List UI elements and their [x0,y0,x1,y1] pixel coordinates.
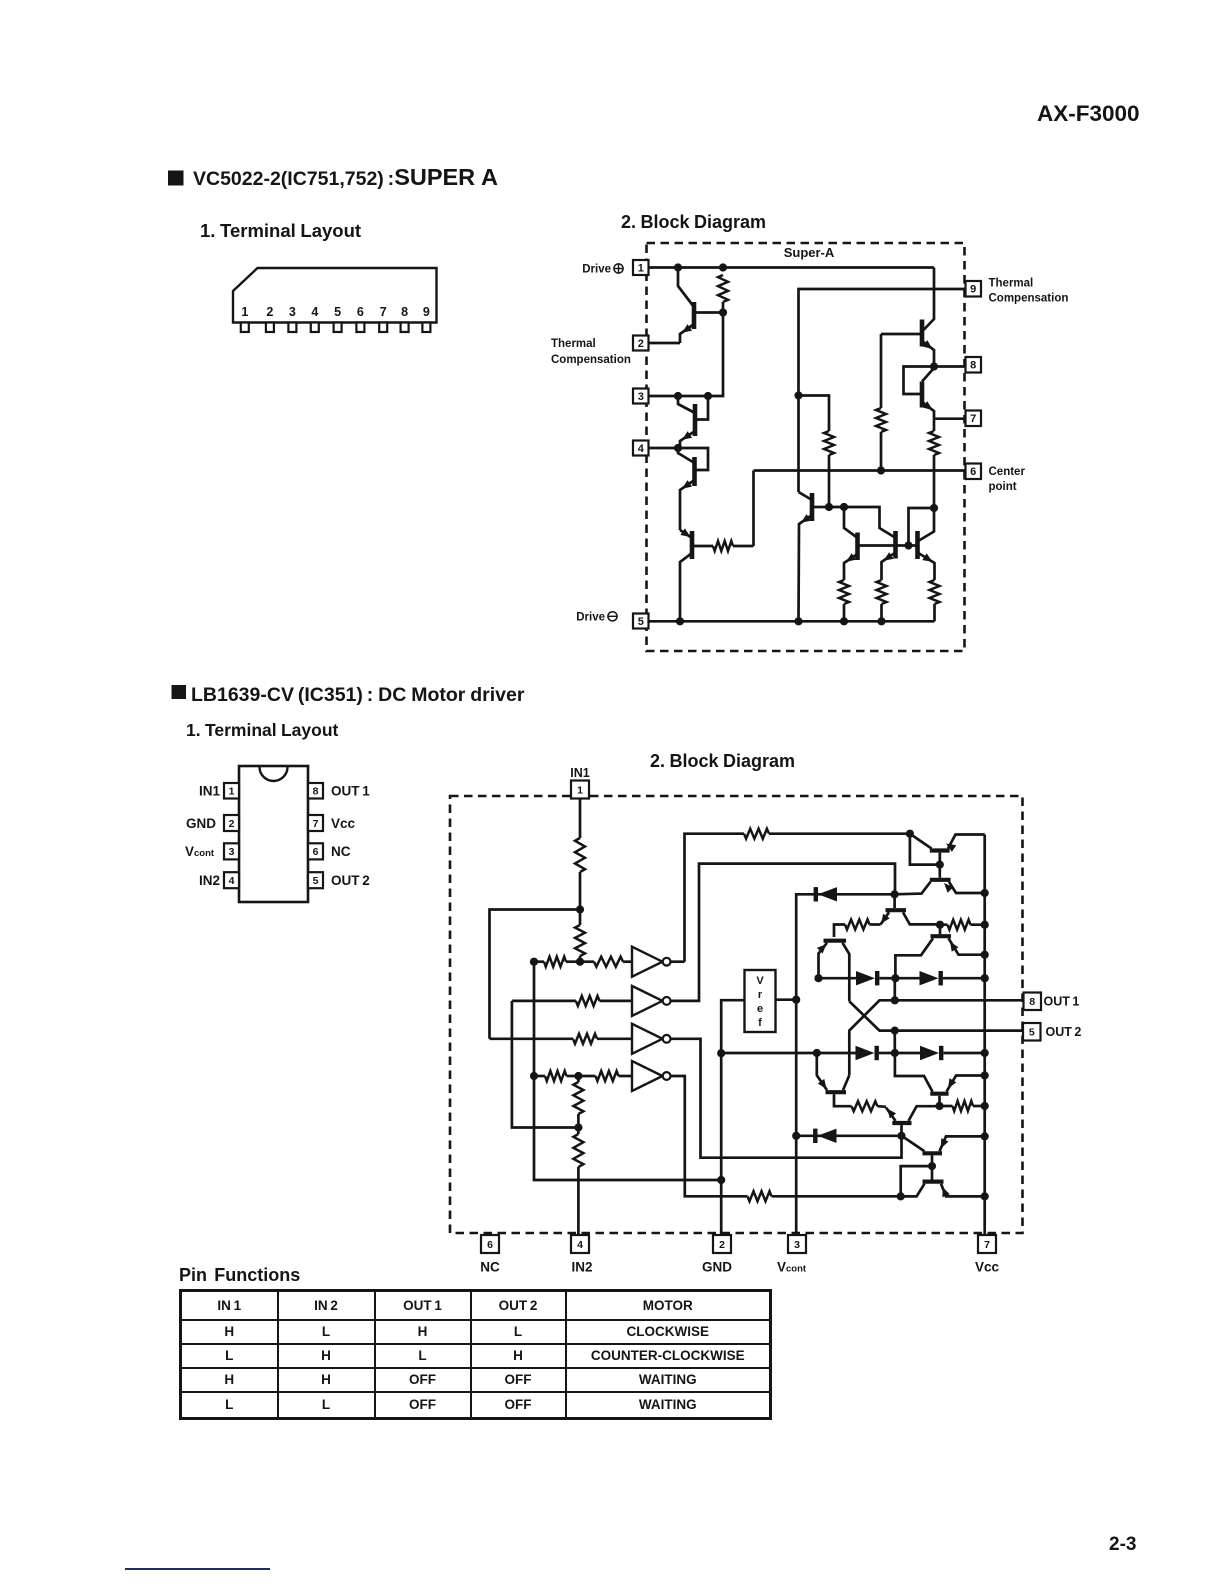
transistor Q14 [817,941,849,1002]
svg-text:1. Terminal Layout: 1. Terminal Layout [200,220,361,241]
node IN1 divider [576,905,584,913]
DIP pin 2 lead [224,815,239,831]
node pin8 [930,362,938,370]
pin 5 (Drive-) [633,614,649,629]
wire U1 output riser [671,834,744,962]
svg-text:V: V [756,975,764,987]
node Vref to Vcont rail [792,996,800,1004]
resistor R3 [824,431,834,507]
SIP pin 6 lead [356,305,364,332]
wire branch to R3 [799,396,830,432]
resistor R18 (row4 left) [534,1071,578,1081]
svg-text:8: 8 [970,360,976,372]
DIP label Vcc [331,816,356,831]
dashed IC boundary box (Super-A) [647,243,965,651]
wire cross-over upper-to-lower [849,1000,895,1075]
wire Q4 base riser to center-point line [752,471,755,547]
pin 6 (Center point) [966,464,982,480]
transistor Q20 (diode-connected bottom) [901,1166,985,1197]
node bottom feed / Q20 [897,1192,905,1200]
transistor Q16 [817,1053,852,1106]
dashed IC boundary box (LB1639) [450,796,1023,1233]
svg-text:8: 8 [1029,996,1035,1008]
svg-text:7: 7 [313,818,319,830]
svg-text:Thermal: Thermal [989,278,1034,290]
section 2 heading text LB1639-CV [191,684,525,706]
label Vcc [975,1260,1000,1275]
subheading 2. Block Diagram (LB1639) [650,751,795,771]
DIP label NC [331,844,351,859]
transistor Q10 (diode-connected, pin8) [904,367,935,419]
svg-text:NC: NC [480,1260,500,1275]
SIP pin 3 lead [288,305,296,332]
label OUT 1 [1044,995,1080,1009]
resistor R20 (bottom feed) [748,1191,901,1201]
node center-line / R4 junction [877,466,885,474]
svg-text:Vcont: Vcont [185,844,215,859]
label Drive minus [576,612,617,624]
section 1 heading bullet [168,171,184,186]
diode D3 [895,971,984,985]
transistor Q9 (upper right) [881,320,934,367]
node Q6 collector tap [840,503,848,511]
resistor R19 (row4 right) [578,1071,632,1081]
node Q18 base / R26 [935,1102,943,1110]
node pin3-A [674,392,682,400]
wire row3 input [490,1037,574,1040]
node pin3-B [704,392,712,400]
svg-text:6: 6 [357,305,364,319]
wire Vcont rail [796,894,816,1234]
svg-text:Vcont: Vcont [777,1260,807,1275]
resistor R22 (IN2 lower) [573,1128,583,1235]
resistor R8 (Q8 emitter) [930,580,940,621]
DIP-8 index notch [260,767,288,781]
wire pin3 [649,395,709,398]
svg-text:4: 4 [229,875,235,887]
svg-text:4: 4 [638,443,645,455]
wire pin7 [934,417,966,420]
SIP pin 1 lead [241,305,249,332]
pin functions table [179,1289,772,1420]
wire OUT2 node to diode row2 [893,1031,896,1053]
resistor R16 (row2) [576,996,632,1006]
svg-text:9: 9 [423,305,430,319]
svg-text:8: 8 [401,305,408,319]
svg-text:r: r [758,989,763,1001]
IC package LB1639 DIP-8 body [239,766,308,902]
svg-text:6: 6 [970,466,976,478]
SIP pin 8 lead [401,305,409,332]
inverter U4 [632,1061,670,1091]
node row4 mid [574,1072,582,1080]
pin 3 Vcont [788,1235,806,1253]
node row1 left [530,958,538,966]
wire pin1 top rail [649,266,935,269]
node pin5-A [676,617,684,625]
resistor R23 (Q14 branch) [834,920,881,938]
node OUT2 [891,1027,899,1035]
DIP pin 7 lead [308,815,323,831]
resistor R4 [876,408,886,471]
wire pin4 [649,447,679,450]
svg-text:IN2: IN2 [199,873,220,888]
svg-text:Compensation: Compensation [989,293,1069,305]
node row4 left [530,1072,538,1080]
svg-text:AX-F3000: AX-F3000 [1037,101,1140,126]
SIP pin 7 lead [379,305,387,332]
node diode row2 mid [891,1049,899,1057]
svg-text:2. Block Diagram: 2. Block Diagram [650,751,795,771]
resistor R21 (IN2 upper) [573,1076,583,1128]
label OUT 2 [1046,1025,1082,1039]
wire IN1 tap to left rail [490,910,581,1039]
resistor R24 (to Vcc) [940,920,985,930]
svg-text:Vcc: Vcc [975,1260,1000,1275]
resistor R7 (Q7 emitter) [877,580,887,621]
diode D2 [819,971,896,985]
diode D1 (Vcont top) [816,887,895,901]
SIP pin 5 lead [334,305,342,332]
pin 6 NC [481,1235,499,1253]
node Q8 collector [930,504,938,512]
node OUT1 [891,996,899,1004]
svg-text:5: 5 [1029,1027,1035,1039]
wire pin2 [649,342,681,345]
DIP label IN1 [199,784,221,799]
inverter U3 [632,1024,670,1054]
DIP pin 4 lead [224,872,239,888]
svg-text:1. Terminal Layout: 1. Terminal Layout [186,720,339,740]
wire OUT2 lead [895,1029,1023,1032]
node left rail to GND rail [717,1176,725,1184]
svg-text:1: 1 [577,784,583,796]
svg-text:OUT 1: OUT 1 [331,784,370,799]
transistor Q19 [902,1136,985,1166]
inverter U2 [632,986,670,1016]
wire row2 input [512,1000,576,1003]
svg-text:Drive: Drive [582,264,611,276]
diode D4 [721,1046,895,1060]
pin 9 (Thermal Compensation) [966,281,982,297]
node diode row1 left [814,974,822,982]
svg-text:OUT 2: OUT 2 [1046,1025,1082,1039]
wire OUT1 lead [895,999,1024,1002]
svg-text:GND: GND [702,1260,732,1275]
node top feed / Q11 [906,830,914,838]
svg-text:Thermal: Thermal [551,338,596,350]
node Q12 emitter / Vcc rail [981,889,989,897]
transistor Q15 [895,925,984,979]
node pin1-B [719,263,727,271]
node R26 / Vcc rail [981,1102,989,1110]
resistor R26 (to Vcc) [940,1101,985,1111]
node Q5 base row left [825,503,833,511]
pin 1 (Drive+) [633,260,649,275]
wire U4 output dropper [671,1076,748,1196]
SIP pin 2 lead [266,305,274,332]
subheading 1. Terminal Layout (VC5022) [200,220,361,241]
diode D6 (Vcont bottom) [796,1129,901,1143]
resistor R12 (IN1 lower) [575,910,585,962]
svg-text:IN1: IN1 [570,766,590,780]
node Vcont / diode row3 [792,1132,800,1140]
wire cross-over lower-to-upper [849,1001,895,1030]
label Drive plus [582,264,623,276]
node row1 mid [576,958,584,966]
svg-text:IN1: IN1 [199,784,221,799]
section 1 heading text VC5022-2 [193,164,498,190]
node Q20 emitter / Vcc rail [981,1192,989,1200]
wire pin8 [934,365,966,368]
svg-text:f: f [758,1017,762,1029]
svg-text:9: 9 [970,284,976,296]
wire row2 left dropper [512,1001,579,1128]
node Q15 emitter / Vcc rail [981,951,989,959]
node pin4 [674,444,682,452]
svg-text:point: point [989,481,1017,493]
svg-text:5: 5 [313,875,319,887]
node QL1 emitter top [813,1049,821,1057]
transistor Q2 [678,396,708,448]
node diode row2 / Vcc rail [981,1049,989,1057]
svg-text:3: 3 [638,391,644,403]
transistor Q5 [799,492,830,621]
svg-text:3: 3 [229,846,235,858]
wire Q6 collector drop [844,507,857,538]
wire GND rail [721,1000,744,1234]
DIP label IN2 [199,873,220,888]
wire Q5 base row [829,507,895,538]
svg-text:NC: NC [331,844,351,859]
label Thermal Compensation left [551,338,631,366]
pin 2 GND [713,1235,731,1253]
svg-text:Super-A: Super-A [784,245,835,260]
transistor Q7 [882,531,896,580]
node pin1-A [674,263,682,271]
label IN1 top [570,766,590,780]
wire R1 node down to pin3 row [708,313,723,397]
svg-text:6: 6 [313,846,319,858]
pin 8 [966,357,982,373]
wire row1-row4 left rail [534,962,721,1180]
svg-text:2: 2 [266,305,273,319]
transistor Q6 [844,533,858,581]
wire pin7 drop to R5 [933,419,936,431]
pin 7 [966,411,982,427]
svg-text:6: 6 [487,1239,493,1251]
svg-text:3: 3 [289,305,296,319]
resistor R2 (Q4 base) [713,541,754,551]
node R1 bottom [719,308,727,316]
DIP label OUT 2 [331,873,370,888]
label Center point [989,466,1026,493]
node IN2 divider [574,1123,582,1131]
svg-text:2: 2 [229,818,235,830]
svg-text:LB1639-CV (IC351) : DC Motor d: LB1639-CV (IC351) : DC Motor driver [191,684,525,706]
label Thermal Compensation right [989,278,1069,305]
svg-text:e: e [757,1003,763,1015]
svg-text:GND: GND [186,816,216,831]
svg-text:VC5022-2(IC751,752) :SUPER A: VC5022-2(IC751,752) :SUPER A [193,164,498,190]
subheading 2. Block Diagram (VC5022) [621,212,766,232]
wire diode row1 to OUT1 node [893,978,896,1000]
wire Vref output [776,998,797,1001]
DIP label GND [186,816,216,831]
svg-text:8: 8 [313,786,319,798]
resistor R11 (IN1 upper) [575,838,585,910]
diode D5 [895,1046,985,1060]
transistor Q1 [678,268,723,344]
DIP pin 3 lead [224,843,239,859]
DIP pin 6 lead [308,843,323,859]
page title AX-F3000 [1037,101,1140,126]
transistor Q8 [918,531,935,580]
node diode row3 / Vcc rail [981,1132,989,1140]
node R24 / Vcc rail [981,921,989,929]
transistor Q3 (diode-connected) [678,448,708,530]
DIP label Vcont [185,844,215,859]
wire pin1 drop [579,799,582,839]
wire pin5 ground rail [649,620,935,623]
footer rule [125,1568,270,1570]
node diode row1 / Vcc rail [981,974,989,982]
wire Q9 base drop to R4 [880,334,883,408]
subheading 1. Terminal Layout (LB1639) [186,720,339,740]
svg-text:1: 1 [638,263,644,275]
svg-text:2: 2 [638,338,644,350]
node Q11 base / Q12 collector [936,861,944,869]
wire Q8 collector tie [909,508,935,546]
svg-text:4: 4 [311,305,318,319]
resistor R1 [718,275,728,313]
DIP pin 1 lead [224,783,239,799]
label NC [480,1260,500,1275]
DIP label OUT 1 [331,784,370,799]
node Q15 collector / R24 [936,921,944,929]
wire top rail drop to Q9 collector [924,268,935,331]
label GND [702,1260,732,1275]
svg-text:2: 2 [719,1239,725,1251]
svg-text:1: 1 [241,305,248,319]
node Q19 base / Q20 collector [928,1162,936,1170]
wire center point line to pin 6 [754,469,966,472]
table heading Pin Functions [179,1265,300,1286]
node diode row1 mid [891,974,899,982]
pin 4 IN2 [571,1235,589,1253]
transistor Q18 [895,1053,985,1106]
pin 7 Vcc [978,1235,996,1253]
node diode row3 junction [897,1132,905,1140]
svg-text:5: 5 [638,616,644,628]
svg-text:OUT 1: OUT 1 [1044,995,1080,1009]
wire pin9 lead and left drop [799,289,966,492]
node pin5-C [840,617,848,625]
label IN2 [571,1260,592,1275]
label Super-A [784,245,835,260]
pin 4 [633,441,649,456]
node pin5-B [794,617,802,625]
svg-text:7: 7 [380,305,387,319]
svg-text:7: 7 [970,413,976,425]
wire U3 output dropper [671,1039,902,1158]
transistor Q4 [680,528,713,621]
inverter U1 [632,947,670,977]
SIP pin 9 lead [422,305,430,332]
svg-text:OUT 2: OUT 2 [331,873,370,888]
resistor R15 (top feed) [744,829,910,839]
svg-text:7: 7 [984,1239,990,1251]
DIP pin 5 lead [308,872,323,888]
pin 1 IN1 top [571,781,589,799]
svg-text:Vcc: Vcc [331,816,356,831]
voltage reference box Vref [745,970,776,1032]
resistor R5 [929,431,939,508]
resistor R14 (row1 right) [580,957,632,967]
SIP pin 4 lead [311,305,319,332]
resistor R6 (Q6 emitter) [839,580,849,621]
IC package VC5022 SIP-9 body [233,268,437,323]
node pin9 drop / R3 branch [794,391,802,399]
resistor R13 (row1 left) [534,957,579,967]
page number 2-3 [1109,1534,1136,1556]
wire Vcc rail [983,835,986,1235]
transistor Q12 [895,865,985,895]
DIP pin 8 lead [308,783,323,799]
transistor Q13 [881,894,941,924]
node base row [904,541,912,549]
resistor R25 (Q16 base) [852,1101,887,1111]
node pin5-D [877,617,885,625]
svg-text:Center: Center [989,466,1026,478]
wire U2 output riser [671,864,895,1001]
label Vcont [777,1260,807,1275]
node GND / diode row2 [717,1049,725,1057]
svg-text:Compensation: Compensation [551,354,631,366]
svg-text:4: 4 [577,1239,583,1251]
svg-text:Drive: Drive [576,612,605,624]
pin 3 [633,389,649,404]
svg-text:IN2: IN2 [571,1260,592,1275]
pin 8 OUT1 [1024,993,1042,1011]
section 2 heading bullet [172,685,187,699]
node diode row0 junction [891,890,899,898]
svg-text:1: 1 [229,786,235,798]
transistor Q17 [886,1106,940,1136]
svg-text:3: 3 [794,1239,800,1251]
resistor R17 (row3) [573,1034,632,1044]
pin 2 (Thermal Compensation) [633,336,649,351]
svg-text:5: 5 [334,305,341,319]
pin 5 OUT2 [1023,1023,1041,1041]
transistor Q11 (diode-connected top) [910,834,985,865]
svg-text:2. Block Diagram: 2. Block Diagram [621,212,766,232]
node Q18 emitter / Vcc rail [981,1071,989,1079]
wire Q6-Q7-Q8 base row [859,544,916,547]
